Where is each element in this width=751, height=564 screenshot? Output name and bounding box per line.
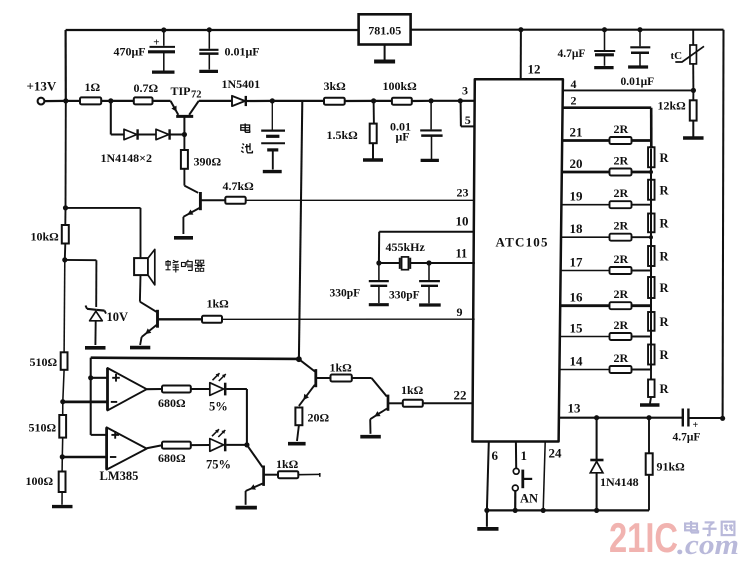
wire thermistor top bbox=[692, 30, 694, 45]
ground 12k bbox=[683, 121, 704, 138]
resistor R17 1kΩ b bbox=[330, 361, 353, 382]
op-amp U3a bbox=[108, 368, 147, 410]
svg-text:+13V: +13V bbox=[27, 79, 57, 94]
capacitor C5 0.01μF topright bbox=[628, 30, 650, 67]
label C2 0.01μF bbox=[225, 45, 260, 59]
diode D6 1N4148 vertical bbox=[590, 418, 603, 511]
wire top rail right segment bbox=[411, 29, 724, 31]
pin 4 wire bbox=[563, 89, 694, 91]
label 1N4148×2 bbox=[101, 151, 153, 165]
wire left rail 438-457 bbox=[61, 438, 63, 457]
ground Q3 bbox=[130, 346, 150, 350]
resistor R12 510Ω b bbox=[29, 415, 67, 438]
svg-text:1kΩ: 1kΩ bbox=[207, 297, 230, 311]
resistor R ladder 8 bbox=[648, 149, 669, 397]
svg-text:1Ω: 1Ω bbox=[85, 80, 101, 94]
node D (1.5k tap) bbox=[371, 98, 376, 103]
label C1 470μF bbox=[114, 45, 146, 59]
pin 4 label bbox=[571, 77, 577, 91]
svg-text:2: 2 bbox=[571, 94, 577, 108]
wire Q3 emitter drop bbox=[140, 337, 142, 345]
wire thermistor to node G bbox=[692, 64, 694, 91]
pin 5 label bbox=[465, 113, 471, 127]
pin 11 wire right bbox=[410, 262, 475, 264]
wire left rail 457-471 bbox=[61, 457, 63, 472]
wire comparator supply rail bbox=[91, 358, 299, 359]
pin 11 label bbox=[456, 247, 468, 261]
ground Q6 bbox=[236, 506, 257, 510]
wire opamp1 inv lead bbox=[63, 400, 108, 403]
pin 24 wire bbox=[543, 442, 545, 511]
wire TIP72 collector to D3 bbox=[199, 100, 232, 102]
svg-text:2R: 2R bbox=[614, 154, 629, 168]
capacitor C7 330pF left bbox=[369, 263, 389, 305]
wire left rail 208-225 bbox=[64, 208, 66, 225]
svg-text:1.5kΩ: 1.5kΩ bbox=[327, 128, 359, 142]
svg-text:20Ω: 20Ω bbox=[308, 411, 330, 425]
node opamp1 inv tap bbox=[60, 399, 65, 404]
battery BT1 电池 bbox=[261, 131, 285, 172]
svg-text:1: 1 bbox=[521, 448, 528, 463]
label 1N4148 bbox=[600, 475, 639, 489]
wire to D4 anode bbox=[111, 133, 124, 135]
ground bottom bus bbox=[477, 510, 498, 529]
wire opamp1 plus drop bbox=[90, 358, 92, 378]
node G (therm/12k/pin4) bbox=[691, 88, 696, 93]
wire junction to Q4 base bbox=[299, 359, 315, 371]
diode D4 1N4148 a bbox=[124, 129, 138, 139]
transistor Q3 bbox=[142, 310, 158, 337]
node LED junction bbox=[244, 442, 249, 447]
node pin13/91k bbox=[646, 415, 651, 420]
node 0.01uF/top rail bbox=[637, 27, 642, 32]
svg-text:4: 4 bbox=[571, 77, 577, 91]
node C (battery tap) bbox=[270, 98, 275, 103]
op IC U1 ATC105 outline bbox=[472, 79, 563, 441]
svg-text:16: 16 bbox=[570, 290, 584, 305]
pin 14 wire + resistor 2R bbox=[559, 351, 651, 373]
resistor R8 12kΩ bbox=[658, 99, 697, 121]
transistor Q2 bbox=[183, 192, 200, 217]
svg-text:11: 11 bbox=[456, 247, 468, 261]
label +13V rail wire bbox=[44, 100, 65, 102]
svg-text:1kΩ: 1kΩ bbox=[276, 457, 299, 471]
svg-text:2R: 2R bbox=[614, 318, 629, 332]
wire speaker to Q3 bbox=[140, 275, 157, 312]
wire left rail 101-208 bbox=[65, 101, 67, 208]
wire 1k to IC pin 9 bbox=[222, 318, 475, 320]
wire left rail 370-402 bbox=[63, 370, 64, 402]
wire R1 to node B bbox=[101, 100, 111, 102]
svg-text:2R: 2R bbox=[614, 122, 629, 136]
pin 10 label bbox=[456, 214, 469, 229]
wire opamp rail drop to opamp2 bbox=[91, 378, 107, 435]
svg-text:4.7μF: 4.7μF bbox=[558, 48, 586, 60]
node 4.7uF/top rail bbox=[602, 27, 607, 32]
resistor R7 1.5kΩ bbox=[327, 124, 377, 144]
pin 11 wire left bbox=[379, 262, 400, 264]
svg-text:4.7μF: 4.7μF bbox=[673, 432, 701, 444]
wire Q2 base to 4.7k bbox=[201, 199, 225, 201]
resistor R16 680Ω b bbox=[158, 442, 191, 465]
svg-text:10V: 10V bbox=[107, 310, 129, 324]
label 池 (battery char 2) bbox=[241, 143, 252, 153]
watermark .com bbox=[677, 530, 739, 561]
pin 17 wire + resistor 2R bbox=[561, 252, 651, 274]
pin 9 label bbox=[457, 305, 463, 319]
wire opamp1 out bbox=[147, 388, 162, 390]
ground Q2 emitter bbox=[174, 236, 193, 240]
wire Q5 collector to 1k bbox=[389, 402, 403, 404]
wire node C to battery bbox=[271, 101, 273, 130]
svg-text:22: 22 bbox=[454, 388, 467, 403]
capacitor C4 4.7μF bbox=[594, 30, 615, 68]
pin 6 wire bbox=[487, 442, 489, 511]
pin 3 label bbox=[462, 84, 468, 98]
svg-text:330pF: 330pF bbox=[330, 288, 361, 300]
zener D7 10V bbox=[86, 306, 107, 346]
resistor R1 1Ω bbox=[80, 80, 101, 104]
wire opamp2 out bbox=[147, 445, 162, 448]
node crystal right bbox=[426, 260, 431, 265]
wire left rail 243-260 bbox=[64, 244, 67, 260]
transistor Q5 bbox=[370, 395, 388, 420]
pin 21 wire + resistor 2R bbox=[562, 122, 651, 144]
regulator U2 781.05 box bbox=[359, 14, 411, 44]
resistor R ladder 7 bbox=[648, 149, 669, 370]
svg-text:12: 12 bbox=[528, 62, 541, 77]
pin 20 wire + resistor 2R bbox=[562, 154, 651, 176]
svg-text:5%: 5% bbox=[209, 400, 228, 414]
svg-text:1N5401: 1N5401 bbox=[222, 77, 261, 91]
resistor R ladder 3 bbox=[648, 149, 669, 238]
svg-text:330pF: 330pF bbox=[389, 290, 420, 302]
wire node E to cap bbox=[430, 101, 432, 130]
svg-text:AN: AN bbox=[520, 492, 538, 506]
svg-text:10: 10 bbox=[456, 214, 469, 229]
svg-text:13: 13 bbox=[568, 401, 582, 416]
resistor R3 3kΩ bbox=[324, 79, 347, 105]
node bus switch bbox=[513, 508, 518, 513]
resistor R9 91kΩ bbox=[646, 418, 685, 511]
ground left rail bottom bbox=[52, 492, 73, 507]
svg-text:LM385: LM385 bbox=[100, 469, 139, 483]
pin 16 wire + resistor 2R bbox=[560, 287, 651, 309]
node top-wire/470uF junction bbox=[161, 27, 166, 32]
capacitor C1 470μF bbox=[148, 30, 175, 72]
wire LED1 to corner bbox=[226, 389, 247, 445]
transistor Q4 bbox=[299, 369, 316, 406]
resistor R4 100kΩ bbox=[383, 79, 418, 105]
pin 2 wire bbox=[563, 108, 652, 149]
svg-text:R: R bbox=[660, 151, 670, 165]
label AN bbox=[520, 492, 538, 506]
svg-text:6: 6 bbox=[492, 448, 499, 463]
wire zener feed bbox=[65, 260, 97, 307]
LED D8 5% bbox=[210, 373, 226, 395]
svg-text:9: 9 bbox=[457, 305, 463, 319]
thermistor RT1 tC bbox=[675, 45, 704, 64]
node bus pin6 bbox=[484, 508, 489, 513]
resistor R20 1kΩ d bbox=[276, 457, 299, 478]
wire D3 to node C bbox=[250, 100, 272, 102]
node ladder pin20 junction bbox=[649, 170, 653, 174]
capacitor C3 0.01μF mid bbox=[420, 130, 442, 160]
label ATC105 bbox=[496, 235, 549, 250]
watermark 电子网 bbox=[685, 521, 734, 535]
resistor R ladder 1 bbox=[648, 147, 669, 172]
node pin13/diode bbox=[594, 415, 599, 420]
resistor R5 390Ω bbox=[181, 150, 222, 169]
wire top rail left segment bbox=[66, 29, 359, 31]
svg-text:1kΩ: 1kΩ bbox=[330, 361, 353, 375]
svg-text:1N4148: 1N4148 bbox=[600, 475, 639, 489]
svg-text:680Ω: 680Ω bbox=[158, 451, 186, 465]
svg-text:18: 18 bbox=[570, 221, 584, 236]
svg-text:23: 23 bbox=[457, 186, 469, 200]
label 蜂 (buzzer char1) bbox=[166, 260, 180, 273]
resistor R6 4.7kΩ bbox=[223, 179, 255, 204]
node B (R1/R2/diode tap) bbox=[108, 98, 113, 103]
label tC bbox=[671, 50, 683, 62]
svg-text:0.7Ω: 0.7Ω bbox=[134, 81, 159, 95]
svg-text:680Ω: 680Ω bbox=[158, 396, 186, 410]
label LM385 bbox=[100, 469, 139, 483]
pin 12 stub bbox=[520, 30, 522, 79]
resistor R18 20Ω bbox=[295, 408, 329, 426]
ground under 781.05 bbox=[374, 45, 395, 62]
svg-text:390Ω: 390Ω bbox=[194, 155, 222, 169]
wire LED2 to node bbox=[226, 444, 247, 446]
transistor Q1 TIP72 bbox=[171, 101, 199, 135]
label 75% bbox=[206, 458, 231, 472]
label 电 (battery char 1) bbox=[241, 124, 250, 133]
node opamp2 inv tap bbox=[60, 454, 65, 459]
svg-text:20: 20 bbox=[570, 156, 583, 171]
svg-text:+: + bbox=[153, 37, 159, 49]
wire left rail top drop bbox=[64, 30, 66, 101]
wire Q6 emitter drop bbox=[245, 491, 247, 505]
switch S1 AN bbox=[512, 468, 532, 491]
wire 100k to node E bbox=[412, 100, 431, 102]
pin 23 label bbox=[457, 186, 469, 200]
speaker LS1 bbox=[134, 249, 155, 285]
resistor R2 0.7Ω bbox=[134, 81, 159, 104]
svg-text:510Ω: 510Ω bbox=[30, 355, 58, 369]
svg-text:5: 5 bbox=[465, 113, 471, 127]
label 5% bbox=[209, 400, 228, 414]
wire 1k stub end bbox=[298, 473, 320, 477]
svg-text:19: 19 bbox=[570, 189, 584, 204]
wire speaker feed bbox=[66, 208, 141, 258]
svg-text:0.01μF: 0.01μF bbox=[621, 76, 655, 88]
svg-text:+: + bbox=[693, 420, 699, 431]
svg-text:1N4148×2: 1N4148×2 bbox=[101, 151, 153, 165]
svg-text:TIP: TIP bbox=[171, 84, 191, 98]
svg-text:781.05: 781.05 bbox=[368, 24, 401, 38]
resistor R14 1kΩ bbox=[202, 297, 229, 323]
ground ladder bottom bbox=[640, 397, 660, 405]
pin 13 wire bbox=[559, 417, 682, 419]
pin 1 wire bbox=[515, 442, 517, 469]
pin 10 wire bbox=[379, 232, 475, 263]
pin 15 wire + resistor 2R bbox=[560, 318, 651, 340]
svg-text:100kΩ: 100kΩ bbox=[383, 79, 418, 93]
ground 1.5k bbox=[363, 143, 383, 160]
svg-text:14: 14 bbox=[570, 354, 584, 369]
resistor R15 680Ω a bbox=[158, 386, 191, 411]
label C4 4.7μF bbox=[558, 48, 586, 60]
svg-text:2R: 2R bbox=[614, 186, 629, 200]
node TIP72 base / 390Ω bbox=[182, 132, 187, 137]
pin 24 label bbox=[549, 446, 563, 461]
wire 1k to Q5 base bbox=[352, 378, 387, 397]
resistor R13 100Ω bbox=[26, 472, 66, 493]
svg-text:μF: μF bbox=[396, 130, 410, 144]
wire 1k to IC pin 22 bbox=[423, 402, 473, 404]
svg-text:R: R bbox=[660, 315, 670, 329]
svg-text:75%: 75% bbox=[206, 458, 231, 472]
svg-text:2R: 2R bbox=[614, 219, 629, 233]
label 330pF right bbox=[389, 290, 420, 302]
node bus/right rail bbox=[720, 416, 725, 421]
svg-text:10kΩ: 10kΩ bbox=[31, 230, 60, 244]
pin 13 label bbox=[568, 401, 582, 416]
wire switch to bus bbox=[514, 491, 516, 511]
node bus pin24 bbox=[541, 508, 546, 513]
capacitor C8 330pF right bbox=[419, 263, 441, 305]
svg-text:2R: 2R bbox=[614, 351, 629, 365]
wire R2 to TIP72 emitter bbox=[153, 100, 171, 102]
node ladder pin18 junction bbox=[649, 235, 653, 239]
label 鸣 (buzzer char2) bbox=[182, 260, 193, 271]
label 10V bbox=[107, 310, 129, 324]
terminal +13V input bbox=[27, 79, 57, 105]
ground zener bbox=[85, 346, 106, 350]
wire right vertical rail bbox=[722, 30, 725, 419]
label C3 0.01 μF bbox=[390, 120, 411, 144]
wire D5 to TIP72 base node bbox=[170, 133, 185, 135]
resistor R10 10kΩ bbox=[31, 225, 69, 244]
svg-text:R: R bbox=[660, 382, 670, 396]
wire node C to 3k bbox=[272, 100, 324, 102]
label C5 0.01μF bbox=[621, 76, 655, 88]
node E (0.01uF tap) bbox=[429, 98, 434, 103]
node bus diode bbox=[594, 508, 599, 513]
crystal X1 455kHz bbox=[400, 257, 410, 270]
capacitor C2 0.01μF bbox=[199, 30, 218, 72]
svg-text:1kΩ: 1kΩ bbox=[401, 383, 424, 397]
wire 4.7k to IC pin 23 bbox=[246, 199, 475, 201]
node speaker tap bbox=[63, 205, 68, 210]
node comparator rail junction bbox=[296, 356, 302, 362]
pin 6 label bbox=[492, 448, 499, 463]
ground 20Ω bbox=[288, 425, 306, 444]
pin 5 stub wire bbox=[461, 101, 476, 127]
wire LED node to Q6 base bbox=[247, 445, 263, 467]
wire 680a to LED1 bbox=[191, 388, 210, 390]
wire Q3 base to 1k bbox=[159, 318, 203, 320]
svg-text:24: 24 bbox=[549, 446, 563, 461]
watermark 21IC bbox=[609, 514, 678, 561]
diode D3 1N5401 bbox=[232, 96, 250, 106]
pin 12 label bbox=[528, 62, 541, 77]
wire Q5 emitter drop bbox=[369, 419, 371, 434]
resistor R ladder 6 bbox=[648, 149, 669, 337]
pin 19 wire + resistor 2R bbox=[561, 186, 651, 208]
wire node B drop to diode pair bbox=[110, 101, 112, 135]
diode D5 1N4148 b bbox=[156, 129, 170, 139]
svg-text:R: R bbox=[660, 183, 670, 197]
wire left rail 402-415 bbox=[62, 402, 64, 415]
label TIP72 bbox=[171, 84, 202, 101]
pin 1 label bbox=[521, 448, 528, 463]
resistor R19 1kΩ c bbox=[401, 383, 424, 407]
wire opamp2 inv lead bbox=[62, 456, 106, 458]
svg-text:3: 3 bbox=[462, 84, 468, 98]
svg-text:100Ω: 100Ω bbox=[26, 474, 54, 488]
svg-text:12kΩ: 12kΩ bbox=[658, 99, 687, 113]
transistor Q6 bbox=[246, 466, 264, 492]
ground Q5 bbox=[360, 435, 381, 439]
svg-text:455kHz: 455kHz bbox=[386, 240, 426, 254]
wire node D to 1.5k bbox=[373, 101, 375, 124]
svg-text:2R: 2R bbox=[614, 252, 629, 266]
label 455kHz bbox=[386, 240, 426, 254]
node opamp1 plus bbox=[88, 375, 93, 380]
wire Q4 collector to 1k bbox=[317, 377, 331, 379]
label 1N5401 bbox=[222, 77, 261, 91]
wire node E to node F bbox=[431, 100, 460, 102]
wire 390Ω to Q2 collector bbox=[184, 169, 198, 193]
wire left rail 260-352 bbox=[63, 260, 66, 352]
svg-text:17: 17 bbox=[570, 255, 584, 270]
wire main rail to R1 bbox=[66, 100, 80, 102]
svg-text:91kΩ: 91kΩ bbox=[657, 460, 686, 474]
capacitor C6 4.7μF series bbox=[673, 409, 723, 444]
svg-text:15: 15 bbox=[570, 321, 584, 336]
pin 22 label bbox=[454, 388, 467, 403]
pin 18 wire + resistor 2R bbox=[561, 219, 651, 241]
svg-text:470μF: 470μF bbox=[114, 45, 146, 59]
wire 680b to LED2 bbox=[191, 444, 210, 446]
label 330pF left bbox=[330, 288, 361, 300]
svg-text:R: R bbox=[660, 216, 670, 230]
wire D4 to D5 bbox=[138, 133, 156, 135]
svg-text:R: R bbox=[660, 250, 670, 264]
svg-text:4.7kΩ: 4.7kΩ bbox=[223, 179, 255, 193]
svg-text:2R: 2R bbox=[614, 287, 629, 301]
svg-text:ATC105: ATC105 bbox=[496, 235, 549, 250]
svg-text:3kΩ: 3kΩ bbox=[324, 79, 347, 93]
wire node G to 12k bbox=[692, 90, 694, 100]
node +13V/left-rail junction bbox=[63, 98, 68, 103]
node F (pin5 tap) bbox=[458, 98, 463, 103]
wire opamp1 plus lead bbox=[91, 377, 108, 379]
svg-text:R: R bbox=[660, 348, 670, 362]
node crystal left bbox=[376, 260, 381, 265]
label 器 (buzzer char3) bbox=[195, 260, 205, 271]
node pin12/top rail bbox=[518, 27, 523, 32]
node zener tap bbox=[62, 257, 67, 262]
svg-text:0.01μF: 0.01μF bbox=[225, 45, 260, 59]
wire node F to IC pin 3 bbox=[460, 100, 475, 102]
wire bottom bus bbox=[487, 509, 649, 511]
svg-text:510Ω: 510Ω bbox=[29, 421, 57, 435]
resistor R11 510Ω a bbox=[30, 352, 68, 370]
resistor R ladder 4 bbox=[648, 149, 669, 271]
pin 2 label bbox=[571, 94, 577, 108]
